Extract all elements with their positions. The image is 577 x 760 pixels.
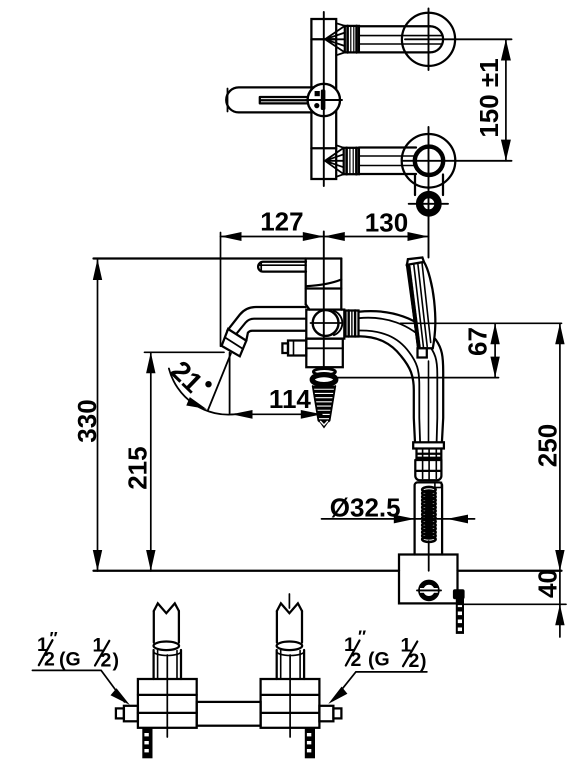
front view: hose curve inner bottom [359,330,421,442]
front view: hose centerline below tab [428,361,430,442]
dimension 130: arrows [324,232,429,241]
front view: coiled hose in tube [422,487,435,492]
21 deg: degree dot [205,381,211,387]
bottom view: left pipe break zigzag [154,603,179,613]
dimension 250: arrows [555,323,564,571]
extension line bottom (67) [336,377,499,379]
svg-text:150 ±1: 150 ±1 [474,58,504,137]
dimension Ø32.5: leader line [322,518,475,520]
front view: cartridge circle crescent [334,311,342,335]
front view: hose curve outer top [359,311,444,442]
dimension 127/130: shared dimension line [221,236,429,238]
dimension 330: line [97,259,99,571]
svg-text:): ) [420,650,427,672]
21 deg: vertical reference line [229,353,231,415]
dimension 40: extension line at block bottom [458,603,567,605]
front view: holder screw ring [421,582,437,598]
front view: lower body block [306,339,343,368]
dimension 215: extension line [145,351,225,353]
dimension 150 +-1: arrows [501,39,511,161]
label left: leader line [32,670,124,702]
top view: lower arm pipe [359,146,416,148]
svg-text:67: 67 [463,327,493,356]
label right: leader arrowhead [328,687,347,704]
svg-text:215: 215 [123,446,153,489]
top view: lever inner lines [260,97,310,103]
svg-text:330: 330 [72,399,102,442]
bottom view: right pipe [276,611,278,643]
front view: handle dome left edge [305,259,307,305]
top view: upper wall flange circle [402,13,455,66]
top view: upper arm cone fan [325,26,345,53]
front view: shower head cap [407,258,424,265]
top view: lever handle stadium [226,87,322,112]
svg-text:(G: (G [368,649,390,671]
bottom view: left pipe [153,611,155,643]
dimension 215: arrows [146,352,155,571]
front view: lift rod side edges [313,386,336,421]
svg-text:40: 40 [532,569,562,598]
label left: fraction slashes [39,640,53,665]
label right 1/2 inch: text [344,627,427,672]
top view: upper arm nut [345,26,359,53]
bottom view: right union body [261,679,320,728]
dimension 215: line [150,352,152,571]
front view: lift rod bead [312,375,336,385]
bottom view: left lower pipe [152,650,154,679]
svg-text:250: 250 [532,424,562,467]
front view: hose curve outer bottom [359,336,416,442]
bottom view: crossbar [197,702,261,726]
label left: leader arrowhead [111,688,130,705]
svg-text:127: 127 [260,207,303,237]
bottom view: left union centerline [166,655,168,737]
bottom view: left pipe joint ellipse [154,642,180,651]
svg-text:Ø32.5: Ø32.5 [330,492,401,522]
top view: donut horizontal crosshair [409,203,448,205]
top view: upper arm cone outline [336,23,345,55]
top view: cartridge circle [308,84,340,116]
top view: upper flange vertical crosshair [428,9,430,71]
top view: lower flange horizontal crosshair / extension line 150 [403,160,512,162]
front view: lever bar [258,262,306,272]
label right: leader line [333,672,427,700]
top view: lower flange inner bold circle [415,147,443,175]
front view: hose curve inner top [359,318,438,443]
deck line left of block [94,570,400,572]
bottom view: left nut [124,706,138,722]
front view: handle dome seam [306,280,341,287]
front view: valve block [306,310,344,339]
dimension 330: arrows [93,259,102,571]
21 deg: slanted flow line [208,354,231,411]
front view: hose below coil [428,541,430,555]
dimension 67: line [494,323,496,377]
front view: shower handle tab [418,348,427,357]
front view: hose clip blob [453,589,465,599]
dimension Ø32.5: arrows [394,515,468,524]
330 extension line merged with handle dome top edge [94,257,342,259]
bottom view: left anchor stub [142,728,152,759]
front view: holder block centerline [428,555,430,571]
front view: lever inner line [260,262,306,272]
front view: hose tail below deck [456,599,464,634]
top view: lower arm nut [344,148,359,174]
svg-text:130: 130 [365,208,408,238]
front view: body chamfer [306,304,310,309]
top view: upper arm pipe [359,25,430,27]
front view: cartridge crosshair [311,322,342,324]
deck line right of block [458,570,562,572]
bottom view: right anchor stub [305,728,315,759]
bottom view: right nut [319,706,333,722]
front view: shower spray face band [409,267,419,347]
front view: holder block [399,555,458,604]
front view: cartridge circle [313,310,339,336]
top view: body cross lines [311,38,336,40]
top view: faucet body rect [311,19,336,179]
front view: hose connector trapezoid [417,449,442,461]
dimension 127: left extension line [220,233,222,347]
front view: shower head body [407,262,435,348]
top view: shower holder ring donut [420,195,438,213]
front view: guide tube notch [435,482,442,487]
dimension 250: line [559,323,561,571]
21 deg: arc arrowhead [186,397,208,413]
dimension 40: arrow [555,604,564,625]
svg-text:): ) [113,649,120,671]
front view: lift rod tip [319,421,329,428]
svg-text:114: 114 [269,384,311,414]
front view: spout aerator body [222,329,247,356]
front view: spout bottom curve [246,331,305,341]
top view: lever end chord [227,89,229,112]
bottom view: left union body [138,679,197,728]
front view: hose nut ribbed [346,311,359,337]
top view: upper flange horizontal crosshair / extension line 150 [405,38,512,40]
front view: hose connector cup [415,460,441,480]
bottom view: right union centerline [289,655,291,737]
front view: shower head inner lines [414,263,431,347]
dimension 150 +-1: line [505,39,507,161]
front view: spout aerator inner line [225,337,243,349]
label left 1/2 inch: text [37,629,119,672]
dimension 114: arrows [232,410,322,419]
front view: spout inner line [236,319,306,334]
bottom view: right pipe centerline stub [288,594,290,608]
bottom view: right pipe break zigzag [277,603,302,613]
svg-text:″: ″ [358,627,366,646]
top view: lower arm cone fan [325,148,344,174]
21 deg: dimension arc [169,369,236,415]
front view: hose collar [413,442,444,448]
dimension 40: line below [559,571,561,637]
top view: lower arm cone outline [336,145,344,177]
front view: lift rod flange [313,369,335,375]
front view: lift rod threads [313,386,336,423]
top view: lower wall flange circle [402,134,456,188]
top view: lower flange vertical crosshair / shower centerline [428,127,430,258]
bottom view: right pipe joint ellipse [277,642,303,651]
dimension 127: arrows [221,232,324,241]
top view: upper arm pipe rounded end [430,26,443,52]
top view: cartridge marks [315,91,320,96]
front view: hose connector inner lines [423,449,437,480]
label right: fraction slashes [346,641,360,666]
dimension 67: arrows [490,323,499,377]
front view: hose guide tube [415,482,443,554]
svg-text:(G: (G [59,649,81,671]
top view: shower holder sides [414,175,416,196]
front view: faucet centerline [323,232,325,370]
front view: handle dome bottom line [306,287,342,289]
bottom view: right lower pipe [276,650,278,679]
dimension 114: line [232,413,322,415]
front view: handle dome right edge [340,259,342,310]
extension line top of hose (67/250) [401,322,562,324]
top view: cartridge crosshair [323,12,325,186]
front view: left side screw nub [288,341,306,356]
front view: spout outer top curve [227,307,305,330]
